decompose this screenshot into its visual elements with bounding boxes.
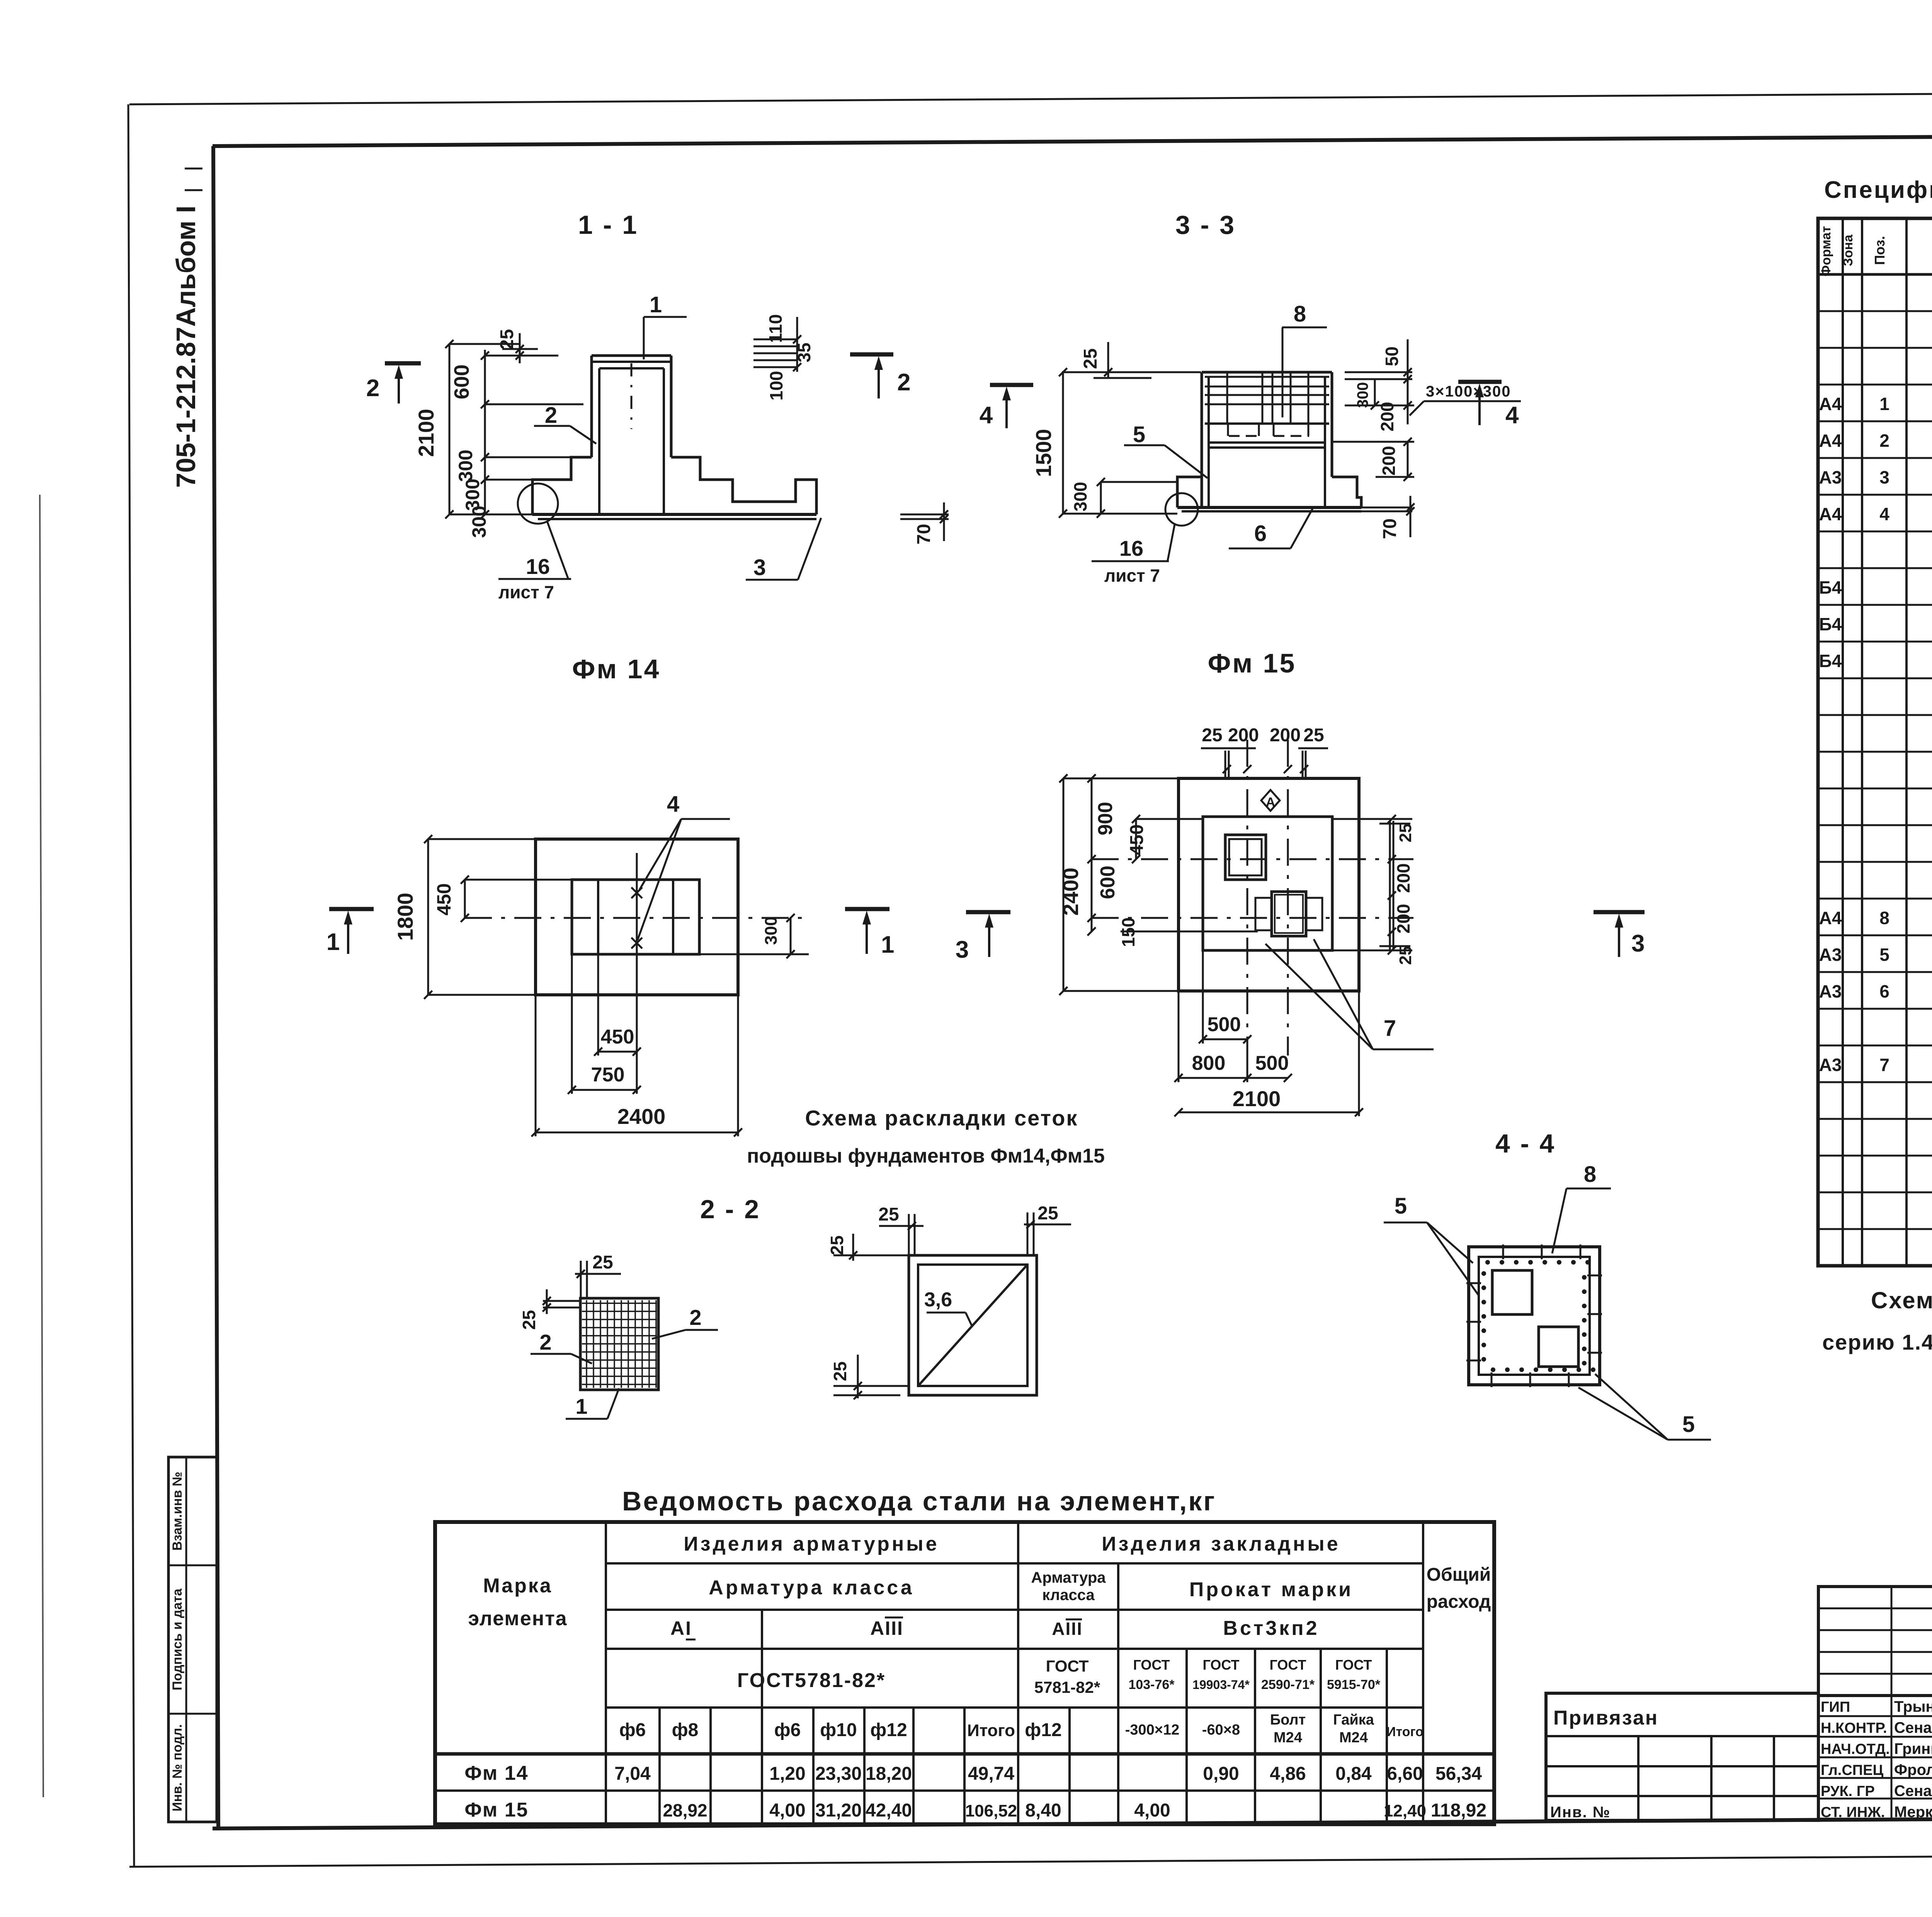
svg-text:8: 8 [1584, 1162, 1596, 1187]
section marker 1 right Фм14 [845, 909, 894, 958]
svg-text:А3: А3 [1819, 1055, 1842, 1075]
svg-text:А: А [1266, 795, 1276, 810]
svg-text:Б4: Б4 [1819, 577, 1842, 598]
svg-text:М24: М24 [1274, 1730, 1302, 1746]
svg-text:Схему сборки каркаса фундамент: Схему сборки каркаса фундамента Фм 14 см… [1871, 1287, 1932, 1313]
leader label 1 (top mesh) 1-1 [644, 292, 687, 359]
svg-text:16: 16 [1119, 536, 1143, 560]
svg-text:600: 600 [1097, 866, 1119, 899]
spec row ММ1 [1819, 577, 1932, 598]
section title 2-2 [700, 1195, 760, 1224]
svg-text:7: 7 [1879, 1055, 1889, 1075]
svg-text:1: 1 [1879, 394, 1889, 414]
mesh hatch grid 2-2 [582, 1300, 657, 1388]
svg-text:Вст3кп2: Вст3кп2 [1223, 1617, 1319, 1639]
svg-text:5: 5 [1879, 945, 1889, 965]
svg-text:элемента: элемента [468, 1607, 567, 1630]
axis marker diamond А [1261, 790, 1280, 811]
svg-text:Б4: Б4 [1819, 614, 1842, 634]
dim 450 bottom Фм14 [594, 954, 641, 1056]
embedded anchor square Фм15 [1225, 835, 1266, 880]
svg-text:Прокат марки: Прокат марки [1189, 1578, 1353, 1601]
svg-text:200: 200 [1270, 725, 1301, 746]
svg-text:Фролова: Фролова [1894, 1762, 1932, 1779]
svg-text:6: 6 [1879, 981, 1889, 1001]
svg-text:А4: А4 [1819, 908, 1842, 928]
svg-text:118,92: 118,92 [1431, 1800, 1486, 1821]
svg-text:2400: 2400 [1058, 868, 1083, 916]
leader label 1 bottom 2-2 [566, 1388, 619, 1419]
dim 450 left Фм14 [433, 875, 572, 922]
svg-text:2: 2 [689, 1305, 701, 1330]
svg-text:Фм 15: Фм 15 [464, 1799, 528, 1821]
svg-text:3 - 3: 3 - 3 [1175, 210, 1236, 240]
leader label 8 top 4-4 [1552, 1162, 1611, 1253]
svg-text:300: 300 [762, 916, 781, 945]
svg-text:Меркушина: Меркушина [1894, 1804, 1932, 1821]
dim 25 left 2-2 [519, 1289, 580, 1330]
svg-text:Взам.инв №: Взам.инв № [170, 1472, 185, 1551]
svg-text:25: 25 [519, 1310, 539, 1330]
section marker 2 left [366, 363, 421, 403]
svg-text:А3: А3 [1819, 981, 1842, 1001]
svg-text:600: 600 [450, 364, 473, 399]
svg-text:500: 500 [1207, 1013, 1241, 1036]
svg-text:Арматура: Арматура [1031, 1569, 1106, 1586]
svg-text:ф6: ф6 [619, 1720, 646, 1740]
svg-text:ГОСТ5781-82*: ГОСТ5781-82* [737, 1669, 886, 1692]
section marker 3 left [956, 912, 1010, 963]
svg-text:750: 750 [591, 1064, 625, 1086]
specification table header texts [1819, 226, 1932, 276]
svg-text:6,60: 6,60 [1387, 1764, 1423, 1784]
svg-text:6: 6 [1254, 521, 1267, 546]
mesh layout note line 2 [747, 1145, 1105, 1167]
steel table data row Фм14 [464, 1762, 1482, 1784]
svg-text:Трынов: Трынов [1894, 1698, 1932, 1715]
svg-text:ГОСТ: ГОСТ [1269, 1657, 1306, 1673]
svg-text:2400: 2400 [617, 1104, 666, 1129]
steel plate note 3x100x300 [1410, 383, 1521, 415]
left stamp strip [168, 1457, 217, 1822]
svg-text:8: 8 [1879, 908, 1889, 928]
svg-text:49,74: 49,74 [968, 1764, 1014, 1784]
cage square outline 4-4 [1469, 1247, 1600, 1385]
svg-text:Подпись и дата: Подпись и дата [170, 1588, 185, 1691]
svg-text:А4: А4 [1819, 394, 1842, 414]
svg-text:ГОСТ: ГОСТ [1335, 1657, 1372, 1673]
svg-text:25: 25 [1080, 348, 1101, 369]
svg-text:Ведомость расхода стали на эле: Ведомость расхода стали на элемент,кг [622, 1486, 1216, 1516]
svg-text:200: 200 [1377, 402, 1397, 432]
spec row 7 МН4 [1819, 1055, 1932, 1075]
svg-text:НАЧ.ОТД.: НАЧ.ОТД. [1821, 1741, 1890, 1757]
svg-text:5: 5 [1682, 1412, 1695, 1437]
dims 800 500 bottom Фм15 [1174, 991, 1292, 1082]
svg-text:Гринкевич: Гринкевич [1894, 1740, 1932, 1757]
svg-text:серию 1.412.1-4: серию 1.412.1-4 [1822, 1330, 1932, 1354]
steel table class row texts [670, 1617, 1320, 1639]
dims 25 200 200 25 top Фм15 [1201, 725, 1328, 778]
svg-text:1: 1 [327, 929, 340, 955]
svg-text:ф10: ф10 [820, 1720, 857, 1740]
section marker 2 right [850, 354, 910, 398]
steel table horizontal lines [435, 1563, 1494, 1791]
svg-text:500: 500 [1255, 1052, 1289, 1074]
svg-text:3: 3 [956, 936, 969, 963]
steel table data row Фм15 [464, 1799, 1486, 1821]
section title 1-1 [578, 210, 638, 240]
svg-text:4,86: 4,86 [1270, 1764, 1306, 1784]
spec row 3 2С 175x235 [1819, 464, 1932, 496]
svg-text:Общий: Общий [1427, 1565, 1491, 1585]
svg-text:5: 5 [1395, 1193, 1407, 1219]
svg-text:А4: А4 [1819, 504, 1842, 524]
mesh block walls 3-3 [1202, 372, 1332, 507]
svg-text:Изделия закладные: Изделия закладные [1102, 1533, 1340, 1555]
spec row 4 Изделие закладное МН1 [1819, 504, 1932, 524]
svg-text:ГОСТ: ГОСТ [1133, 1657, 1170, 1673]
svg-text:450: 450 [601, 1026, 634, 1048]
horizontal axes Фм15 [1092, 859, 1413, 918]
plate thickness label 3,6 [924, 1289, 972, 1326]
steel consumption table title [622, 1486, 1216, 1516]
svg-text:1: 1 [881, 931, 894, 958]
svg-text:ф6: ф6 [774, 1720, 801, 1740]
svg-text:300: 300 [455, 449, 476, 482]
assembly note line 2 [1822, 1330, 1932, 1354]
svg-text:800: 800 [1192, 1052, 1226, 1074]
embedded item МН4 Фм15 [1255, 892, 1322, 936]
dim 2400 bottom Фм14 [531, 995, 742, 1137]
svg-text:18,20: 18,20 [866, 1764, 912, 1784]
leader label 7 Фм15 [1265, 939, 1434, 1049]
svg-text:0,84: 0,84 [1335, 1764, 1372, 1784]
dim 25 top 3-3 [1080, 342, 1151, 378]
base plate square with diagonal [909, 1255, 1037, 1395]
svg-text:Зона: Зона [1841, 234, 1855, 266]
svg-text:Гл.СПЕЦ: Гл.СПЕЦ [1821, 1762, 1883, 1779]
pedestal inner rectangle Фм15 [1203, 817, 1332, 950]
specification title [1824, 177, 1932, 203]
leader label 8 top 3-3 [1282, 301, 1327, 417]
svg-text:Сенаторов: Сенаторов [1894, 1783, 1932, 1800]
svg-text:7: 7 [1384, 1016, 1396, 1041]
svg-text:Формат: Формат [1819, 226, 1833, 276]
leader label 5 top-left 4-4 [1384, 1193, 1479, 1296]
leader label 3 (bedding) 1-1 [746, 518, 821, 580]
rebar tick marks 4-4 [1466, 1245, 1602, 1387]
section marker 3 right [1594, 912, 1645, 957]
spec row 5 1С 145x145 [1819, 941, 1932, 974]
dim 2400 left Фм15 [1058, 774, 1179, 995]
svg-text:3: 3 [1631, 930, 1645, 957]
leader label 5 3-3 [1124, 422, 1207, 478]
svg-text:5915-70*: 5915-70* [1327, 1677, 1381, 1692]
rebar dots 4-4 [1481, 1260, 1595, 1372]
svg-text:25: 25 [1303, 725, 1324, 746]
svg-text:2 - 2: 2 - 2 [700, 1195, 760, 1224]
svg-text:4: 4 [1505, 402, 1519, 429]
leader label 2 (formwork) 1-1 [534, 403, 596, 444]
section marker 1 left Фм14 [327, 909, 374, 955]
svg-text:А3: А3 [1819, 467, 1842, 487]
svg-text:2: 2 [897, 369, 910, 396]
detail callout circle 16 лист 7 (3-3) [1092, 493, 1198, 586]
svg-text:200: 200 [1379, 446, 1399, 476]
svg-text:1: 1 [575, 1394, 587, 1418]
svg-text:12,40: 12,40 [1384, 1801, 1426, 1820]
svg-text:2: 2 [545, 403, 557, 428]
dim 25 top-right of plate [1024, 1203, 1071, 1255]
footing steps outline 1-1 [532, 457, 816, 519]
leader label 6 bedding 3-3 [1229, 509, 1313, 548]
leader label 2 right 2-2 [652, 1305, 718, 1339]
title block main frame [1818, 1583, 1932, 1817]
dim 1500 3-3 [1031, 368, 1201, 518]
svg-text:Гайка: Гайка [1333, 1712, 1374, 1728]
svg-text:4 - 4: 4 - 4 [1495, 1129, 1556, 1158]
svg-text:1,20: 1,20 [769, 1764, 805, 1784]
svg-text:4: 4 [980, 402, 993, 429]
svg-text:ф12: ф12 [870, 1720, 907, 1740]
svg-text:А3: А3 [1819, 945, 1842, 965]
title block signature grid [1818, 1587, 1932, 1819]
dim 450 left Фм15 [1127, 815, 1203, 863]
svg-text:25: 25 [497, 329, 517, 349]
steel table diameter row texts [619, 1712, 1423, 1746]
svg-text:300: 300 [1070, 482, 1090, 512]
svg-text:25: 25 [827, 1235, 847, 1255]
svg-text:2590-71*: 2590-71* [1261, 1677, 1315, 1692]
svg-text:М24: М24 [1339, 1730, 1368, 1746]
spec row 8 С3 [1819, 908, 1932, 928]
svg-text:100: 100 [766, 371, 786, 401]
dim 70 bedding 1-1 [900, 502, 949, 545]
svg-text:19903-74*: 19903-74* [1192, 1678, 1250, 1692]
page inner thick frame [213, 133, 1932, 1828]
svg-text:25: 25 [1396, 824, 1415, 843]
mesh layout note line 1 [805, 1106, 1078, 1130]
svg-text:35: 35 [794, 342, 814, 362]
svg-text:расход: расход [1427, 1592, 1491, 1612]
svg-text:ГИП: ГИП [1821, 1699, 1850, 1715]
plan title Фм 14 [572, 654, 661, 684]
dim 300 bottom 3-3 [1070, 478, 1177, 518]
column axis dash line 1-1 [631, 363, 633, 429]
dim group 110 35 100 right of 1-1 [753, 314, 814, 400]
svg-text:8: 8 [1294, 301, 1306, 327]
reinforcement mesh bars 3-3 [1205, 373, 1329, 436]
specification table row lines [1818, 311, 1932, 1229]
assembly note line 1 [1871, 1287, 1932, 1313]
svg-text:Спецификация элементов фундаме: Спецификация элементов фундаментов Фм 14… [1824, 177, 1932, 203]
leader label 2 left 2-2 [531, 1330, 592, 1364]
svg-text:42,40: 42,40 [866, 1800, 912, 1821]
spec row 6 2С 205x235 [1819, 978, 1932, 1010]
svg-text:1500: 1500 [1031, 429, 1056, 477]
svg-text:Изделия арматурные: Изделия арматурные [684, 1533, 939, 1555]
svg-text:-300×12: -300×12 [1125, 1722, 1180, 1738]
svg-text:Арматура класса: Арматура класса [709, 1577, 914, 1599]
svg-text:2: 2 [539, 1330, 551, 1354]
plan title Фм 15 [1208, 648, 1296, 678]
svg-text:25: 25 [1396, 946, 1415, 965]
svg-text:70: 70 [914, 524, 934, 544]
dim 25 top-left of plate [878, 1204, 923, 1255]
column pedestal outline 1-1 [592, 356, 671, 514]
svg-text:Инв. № подл.: Инв. № подл. [170, 1724, 185, 1811]
svg-text:Марка: Марка [483, 1575, 553, 1597]
svg-text:110: 110 [765, 314, 786, 343]
dim 2100 1-1 [414, 340, 532, 518]
svg-text:300: 300 [1354, 382, 1371, 408]
svg-text:450: 450 [1127, 824, 1147, 855]
svg-text:Б4: Б4 [1819, 651, 1842, 671]
svg-text:Привязан: Привязан [1553, 1707, 1658, 1729]
svg-text:31,20: 31,20 [815, 1800, 862, 1821]
steel table vertical lines [606, 1522, 1423, 1824]
pedestal inner rectangle Фм14 [572, 880, 699, 954]
footing outer rectangle Фм15 [1179, 778, 1359, 991]
svg-text:16: 16 [526, 554, 550, 579]
svg-text:Фм 14: Фм 14 [464, 1762, 528, 1784]
svg-text:5: 5 [1133, 422, 1145, 447]
svg-text:ГОСТ: ГОСТ [1202, 1657, 1239, 1673]
section marker 4 right [1458, 382, 1519, 429]
svg-text:25: 25 [1037, 1203, 1058, 1224]
footing outer rectangle Фм14 [536, 839, 738, 995]
dim 25 left upper of plate [827, 1234, 909, 1261]
svg-text:23,30: 23,30 [815, 1764, 862, 1784]
svg-text:Итого: Итого [1386, 1725, 1423, 1739]
svg-text:50: 50 [1382, 346, 1402, 366]
svg-text:3: 3 [753, 555, 766, 580]
svg-text:класса: класса [1042, 1587, 1095, 1604]
embedded squares 4-4 [1492, 1270, 1578, 1367]
svg-text:70: 70 [1380, 518, 1400, 539]
svg-text:СТ. ИНЖ.: СТ. ИНЖ. [1821, 1805, 1885, 1821]
svg-text:200: 200 [1228, 725, 1259, 746]
svg-text:705-1-212.87Альбом I: 705-1-212.87Альбом I [171, 206, 201, 488]
specification table frame [1818, 218, 1932, 1266]
svg-text:лист 7: лист 7 [1104, 565, 1160, 586]
dim 25 top 1-1 [497, 329, 538, 363]
spec row ММ3 [1819, 651, 1932, 671]
steel table GOST row texts [737, 1657, 1381, 1696]
svg-text:1 - 1: 1 - 1 [578, 210, 638, 240]
dim 2100 bottom Фм15 [1174, 991, 1363, 1117]
dim chain 900 600 150 left Фм15 [1087, 774, 1258, 947]
dim 70 bedding 3-3 [1361, 496, 1415, 539]
svg-text:РУК. ГР: РУК. ГР [1821, 1783, 1875, 1800]
svg-text:200: 200 [1393, 863, 1413, 893]
svg-text:56,34: 56,34 [1435, 1764, 1482, 1784]
svg-text:Схема раскладки сеток: Схема раскладки сеток [805, 1106, 1078, 1130]
svg-text:103-76*: 103-76* [1128, 1677, 1175, 1692]
dim 25 top 2-2 [575, 1252, 621, 1298]
svg-text:300: 300 [468, 506, 490, 538]
footing outline 3-3 [1177, 477, 1361, 511]
svg-text:4,00: 4,00 [1134, 1800, 1170, 1821]
mesh square outline 2-2 [580, 1298, 658, 1390]
leader label 5 bottom-right 4-4 [1578, 1374, 1711, 1440]
svg-text:2: 2 [366, 375, 379, 402]
svg-text:8,40: 8,40 [1025, 1800, 1061, 1821]
svg-text:Н.КОНТР.: Н.КОНТР. [1821, 1720, 1887, 1737]
svg-text:200: 200 [1393, 904, 1413, 934]
svg-text:450: 450 [433, 883, 455, 915]
dim chain 600 300 300 300 1-1 [450, 350, 583, 538]
svg-text:0,90: 0,90 [1203, 1764, 1239, 1784]
svg-text:2100: 2100 [414, 409, 438, 457]
section title 4-4 [1495, 1129, 1556, 1158]
title block signature rows text [1821, 1698, 1932, 1821]
svg-text:Фм 15: Фм 15 [1208, 648, 1296, 678]
spec row ММ2 [1819, 614, 1932, 635]
svg-text:3×100×300: 3×100×300 [1426, 383, 1511, 400]
horizontal axis line Фм14 [465, 917, 809, 919]
svg-text:3: 3 [1879, 467, 1889, 487]
svg-text:Поз.: Поз. [1872, 236, 1888, 265]
svg-text:Болт: Болт [1270, 1712, 1306, 1728]
svg-text:4,00: 4,00 [769, 1800, 805, 1821]
svg-text:25: 25 [830, 1361, 850, 1381]
leader label 4 Фм14 [638, 792, 730, 940]
svg-text:3,6: 3,6 [924, 1289, 952, 1311]
scan edge artifact line [40, 495, 43, 1797]
svg-text:-60×8: -60×8 [1202, 1722, 1240, 1738]
svg-text:2100: 2100 [1233, 1086, 1281, 1111]
dim 500 bottom inner Фм15 [1199, 950, 1251, 1044]
svg-text:1800: 1800 [393, 893, 417, 941]
svg-text:Фм 14: Фм 14 [572, 654, 661, 684]
spec row 1 СН-6АI [1819, 394, 1932, 416]
section marker 4 left [980, 385, 1033, 429]
dim 1800 Фм14 [393, 835, 536, 999]
svg-text:7,04: 7,04 [614, 1764, 651, 1784]
title block Привязан box [1546, 1693, 1818, 1821]
steel table outer border [435, 1522, 1494, 1824]
svg-text:Инв. №: Инв. № [1550, 1804, 1611, 1821]
svg-text:ф8: ф8 [672, 1720, 699, 1740]
svg-text:25: 25 [878, 1204, 899, 1225]
steel table header texts [468, 1533, 1491, 1630]
dim group 50 300 200 200 right of 3-3 [1332, 339, 1414, 481]
svg-text:Сенаторов: Сенаторов [1894, 1720, 1932, 1737]
svg-text:подошвы фундаментов Фм14,Фм15: подошвы фундаментов Фм14,Фм15 [747, 1145, 1105, 1167]
svg-text:АIII: АIII [1052, 1619, 1083, 1639]
svg-text:ф12: ф12 [1025, 1720, 1061, 1740]
dims 25 200 200 25 right Фм15 [1332, 815, 1415, 965]
svg-text:А4: А4 [1819, 431, 1842, 451]
dim 25 left lower of plate [830, 1355, 909, 1399]
svg-text:АIII: АIII [870, 1617, 903, 1639]
svg-text:АI: АI [670, 1617, 692, 1639]
anchor line with marks Фм14 [631, 853, 642, 985]
dim 300 right Фм14 [699, 914, 809, 958]
detail callout circle 16 лист 7 [498, 484, 571, 602]
album designation vertical text 705-1-212.87 Альбом I [171, 169, 202, 488]
svg-text:Итого: Итого [967, 1721, 1015, 1740]
section title 3-3 [1175, 210, 1236, 240]
svg-text:25: 25 [592, 1252, 613, 1273]
svg-text:4: 4 [667, 792, 679, 817]
svg-text:1: 1 [650, 292, 662, 317]
spec row 2 1С 85x205 [1819, 427, 1932, 460]
svg-text:лист 7: лист 7 [498, 582, 554, 602]
svg-text:900: 900 [1094, 802, 1117, 836]
